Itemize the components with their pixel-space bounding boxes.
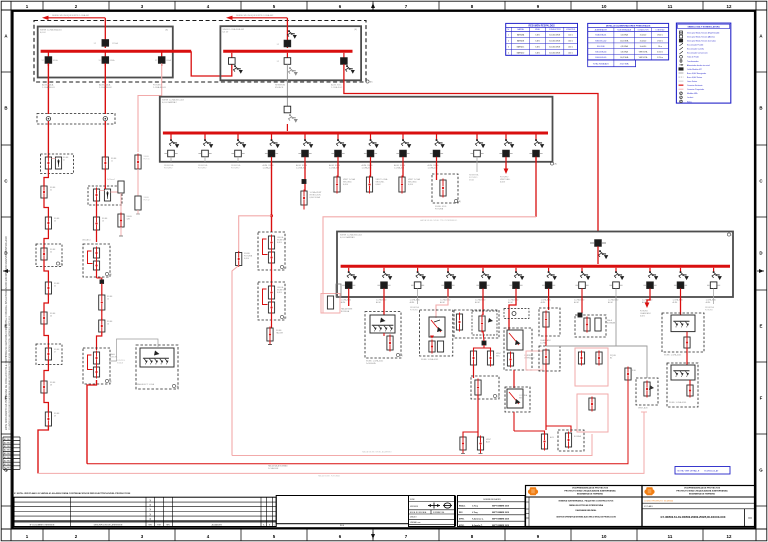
- chain feeder 516 starter box: [504, 328, 543, 370]
- wire feeder 536 drop and pale link: [323, 157, 536, 294]
- svg-text:3x1x500 MCM: 3x1x500 MCM: [549, 41, 560, 43]
- svg-text:GESTION OPERATIVA SISTEMA ELEC: GESTION OPERATIVA SISTEMA ELECTRICO NIVE…: [556, 516, 616, 519]
- load cell col2 y322: [99, 310, 113, 334]
- chain feeder 548 bottom box: [546, 364, 584, 451]
- wire col1 segment i: [44, 393, 48, 412]
- sala electrica dashed room: [136, 345, 178, 389]
- svg-text:A.Jacobs T.: A.Jacobs T.: [472, 524, 483, 527]
- svg-text:(E): (E): [370, 82, 373, 84]
- load cell col2 y159: [102, 156, 117, 171]
- svg-text:Trafo de Poder: Trafo de Poder: [687, 57, 699, 59]
- label under SG-A feeder1: [42, 84, 56, 89]
- svg-text:SGC-SGD: SGC-SGD: [597, 46, 606, 48]
- svg-text:ESTE DOCUMENTO ES PROPIEDAD DE: ESTE DOCUMENTO ES PROPIEDAD DE CODELCO C…: [5, 236, 8, 430]
- svg-text:FUTURO: FUTURO: [410, 309, 418, 311]
- svg-text:T.Jamenez L.: T.Jamenez L.: [472, 518, 484, 520]
- svg-text:06: 06: [50, 315, 52, 317]
- svg-text:VERSION: VERSION: [410, 506, 419, 508]
- svg-text:TALLER: TALLER: [276, 331, 284, 334]
- svg-text:SEC: SEC: [496, 355, 501, 357]
- RMU stacked pair box col2 lower: [83, 332, 118, 384]
- feeder breaker on bus D at x=680.5: [674, 268, 689, 297]
- feed wire SG-B to SG-D switchgear: [344, 64, 598, 231]
- svg-text:13: 13: [102, 220, 104, 222]
- svg-text:FUTURO: FUTURO: [164, 167, 173, 169]
- left margin revision strip: [3, 437, 20, 470]
- svg-text:ALIM.: ALIM.: [541, 301, 546, 304]
- feeder breaker on bus C at x=171: [164, 135, 179, 162]
- svg-text:6,6kV: 6,6kV: [376, 184, 382, 186]
- svg-text:DIBUJO: DIBUJO: [410, 517, 417, 519]
- switchgear cabinet SG-D (lower): [337, 232, 734, 298]
- svg-text:CONDUCTOR: CONDUCTOR: [638, 29, 650, 31]
- svg-text:ALIM.: ALIM.: [706, 301, 711, 304]
- svg-text:630A: 630A: [53, 59, 58, 62]
- svg-text:6,6kV: 6,6kV: [640, 315, 646, 317]
- busbar A 6.6kV: [41, 50, 192, 53]
- feeder breaker on bus C at x=205: [198, 135, 213, 162]
- svg-text:Interruptor Media Tension (Fij: Interruptor Media Tension (Fijo) Extraib…: [687, 31, 719, 34]
- source arrow DESDE SGA: [42, 14, 105, 20]
- feeder breaker on bus D at x=616: [609, 268, 624, 297]
- svg-text:ALCANCES: ALCANCES: [212, 523, 223, 526]
- unit substation box feeder 384: [365, 297, 403, 365]
- feeder label x=305: [296, 164, 308, 169]
- svg-text:UNIDAD mm: UNIDAD mm: [410, 521, 421, 524]
- svg-text:X: X: [149, 508, 151, 512]
- bottom cell chain 516: [514, 412, 555, 451]
- svg-text:1-CHA-SE-01: 1-CHA-SE-01: [42, 86, 56, 89]
- spare feeder label x=171: [164, 164, 174, 169]
- svg-text:6,6kV: 6,6kV: [500, 181, 506, 183]
- svg-text:LONGITUD: LONGITUD: [656, 29, 666, 31]
- RMU stacked pair box 2 on feeder 271: [258, 282, 287, 320]
- load cell col1 y188: [41, 185, 56, 200]
- stubs under chain 483 bottom pair: [461, 450, 483, 454]
- feeder breaker on bus C at x=338: [331, 135, 346, 162]
- svg-text:(E): (E): [284, 267, 287, 269]
- enclosure corner mark: [366, 80, 373, 84]
- source arrow DESDE SGB: [226, 14, 287, 20]
- svg-text:04: 04: [50, 251, 52, 253]
- svg-text:1-CHA-SGC: 1-CHA-SGC: [331, 86, 343, 89]
- pale col3 load cell: [135, 154, 150, 171]
- chain feeder 548 box1: [539, 297, 560, 345]
- feeder breaker on bus D at x=348.7: [342, 268, 357, 297]
- svg-text:SALA ELECT. 1-CHA: SALA ELECT. 1-CHA: [137, 383, 155, 386]
- junction square col2: [97, 269, 104, 284]
- svg-text:ENLACE: ENLACE: [275, 86, 284, 89]
- svg-text:B1: B1: [610, 357, 612, 359]
- svg-text:200 m: 200 m: [568, 47, 573, 49]
- feeder label x=338: [329, 164, 341, 169]
- title block section project 2 with drawing number: [642, 486, 756, 527]
- feeder breaker on bus C at x=271.5: [265, 135, 280, 162]
- wire col2 segment a: [104, 121, 106, 157]
- svg-text:BARRA: BARRA: [517, 28, 524, 31]
- spare feeder label x=238: [231, 164, 241, 169]
- title block section project 1: [526, 486, 643, 527]
- svg-text:(E): (E): [60, 264, 63, 266]
- svg-text:ALIM.: ALIM.: [508, 301, 513, 304]
- sub-branch cell lower: [118, 213, 133, 237]
- svg-text:(E): (E): [731, 235, 734, 237]
- label under SG-B coupler: [275, 84, 285, 89]
- svg-text:3x1x500 MCM: 3x1x500 MCM: [549, 35, 560, 37]
- chain feeder 548 box2: [539, 327, 560, 371]
- legend simbologia y nomenclatura: [676, 23, 730, 103]
- svg-text:FUTURO: FUTURO: [705, 309, 713, 311]
- svg-text:N° PLANO:: N° PLANO:: [644, 505, 654, 508]
- bus D feeder label x=582: [574, 299, 585, 304]
- svg-text:LONGITUD: LONGITUD: [566, 29, 576, 31]
- load cell col2 y219: [93, 216, 108, 232]
- svg-text:BARRA B: BARRA B: [517, 40, 525, 43]
- svg-text:FORMATO A1: FORMATO A1: [433, 511, 444, 514]
- bus A overhang tie to SG-B: [191, 51, 232, 76]
- svg-text:X: X: [149, 503, 151, 507]
- svg-text:BODEGA: BODEGA: [341, 310, 350, 313]
- svg-text:CODIGO PROYECTO: GY-4W500: CODIGO PROYECTO: GY-4W500: [644, 500, 673, 502]
- svg-text:(E): (E): [458, 201, 461, 203]
- busbar D 6.6kV: [341, 265, 730, 268]
- sub-branch cell upper: [118, 181, 124, 214]
- svg-text:(E): (E): [109, 274, 112, 276]
- incomer disconnect switch SG-B: [287, 30, 296, 38]
- motor starter dashed box: [636, 378, 658, 410]
- svg-text:(E): (E): [165, 30, 168, 32]
- svg-text:6,6kV: 6,6kV: [277, 292, 283, 294]
- svg-text:Seccionador Fusible: Seccionador Fusible: [687, 45, 703, 47]
- chain feeder 516 upper: [504, 297, 529, 330]
- pink future group left of SG-D: [321, 284, 341, 313]
- svg-text:(E): (E): [400, 355, 403, 357]
- junction below 483: [474, 331, 491, 351]
- svg-text:NOMBRE FECHA: NOMBRE FECHA REV: [483, 498, 501, 501]
- wire col2 segment c: [96, 201, 98, 217]
- svg-text:16,47 MVA: 16,47 MVA: [620, 56, 629, 59]
- feeder breaker on bus C at x=536: [529, 135, 544, 162]
- bus coupler breaker 52-B3 (open): [277, 53, 291, 65]
- stub feeder 348: [341, 297, 353, 313]
- svg-text:6,6kV 400A: 6,6kV 400A: [310, 196, 321, 199]
- title block left tables: [14, 492, 525, 527]
- svg-text:SEPT EMBRE 2019: SEPT EMBRE 2019: [492, 505, 509, 507]
- load cell col1 y383: [41, 380, 56, 395]
- svg-text:630A: 630A: [469, 178, 474, 181]
- svg-text:NIVEL: NIVEL: [535, 29, 540, 31]
- feeder breaker on bus D at x=650: [643, 268, 658, 297]
- svg-text:3x1x500: 3x1x500: [640, 35, 646, 37]
- cabinet C corner mark: [550, 162, 557, 166]
- svg-text:08: 08: [50, 384, 52, 386]
- label under SG-B feeder: [331, 84, 343, 89]
- svg-text:ALIM.: ALIM.: [574, 301, 579, 304]
- svg-text:SEPT EMBRE 2019: SEPT EMBRE 2019: [492, 525, 509, 527]
- bus D feeder label x=650: [642, 299, 653, 304]
- svg-text:1: 1: [508, 35, 509, 37]
- svg-text:2° NOTA: VER PLANO GY-4W500-61: 2° NOTA: VER PLANO GY-4W500-61-AV-45002 …: [14, 492, 131, 495]
- spare feeder gray stub: [469, 162, 479, 182]
- feeder label x=370.5: [362, 164, 374, 169]
- svg-text:3x1x500: 3x1x500: [640, 40, 646, 42]
- svg-text:02: 02: [50, 189, 52, 191]
- svg-text:11: 11: [668, 4, 673, 9]
- svg-text:ALIM.: ALIM.: [440, 301, 445, 304]
- svg-text:INGENIERIA DE TERRENO: INGENIERIA DE TERRENO: [577, 493, 604, 496]
- svg-text:ALIM.: ALIM.: [410, 301, 415, 304]
- svg-text:1-CHA-SGE: 1-CHA-SGE: [268, 467, 279, 470]
- svg-text:F: F: [760, 396, 763, 401]
- branch pale to sub-column: [111, 187, 121, 192]
- incomer breaker 52-A1: [94, 40, 119, 47]
- svg-text:Transformador: Transformador: [687, 61, 699, 63]
- svg-text:Conexion Existente: Conexion Existente: [687, 84, 702, 87]
- svg-text:10: 10: [602, 534, 607, 539]
- svg-text:HACIA SS.EE. FUTURAS: HACIA SS.EE. FUTURAS: [318, 474, 340, 477]
- svg-text:FUTURA: FUTURA: [435, 207, 444, 210]
- svg-text:REV.: REV.: [459, 512, 463, 514]
- svg-text:VER NOTA: VER NOTA: [639, 51, 648, 54]
- wire col1 segment e: [44, 260, 48, 282]
- collector wire pink upper: [232, 434, 592, 456]
- svg-text:1-CHA-SE-02: 1-CHA-SE-02: [99, 86, 113, 89]
- distribution complex feeder 483: [454, 297, 499, 338]
- contactor cell feeder 305: [301, 190, 322, 210]
- wire col1 segment h: [44, 360, 48, 381]
- future arrow feeder 650: [640, 297, 651, 318]
- future feeder red arrow: [500, 162, 511, 184]
- svg-text:VER NOTA: VER NOTA: [639, 56, 648, 59]
- feeder breaker on bus C at x=403: [396, 135, 411, 162]
- incomer breaker 52-B1: [277, 40, 291, 47]
- tie breaker 52-B2 (open): [229, 53, 243, 74]
- feeder breaker on bus C at x=506: [499, 135, 514, 162]
- svg-text:ALIM.: ALIM.: [341, 301, 346, 304]
- svg-text:SGE-SGF-005: SGE-SGF-005: [595, 57, 606, 59]
- svg-text:INGENIERIA DE TERRENO: INGENIERIA DE TERRENO: [689, 493, 716, 496]
- blue reference box: [675, 467, 730, 475]
- wire col1 segment c: [44, 198, 48, 217]
- svg-text:Seccionador Cuchilla: Seccionador Cuchilla: [687, 49, 704, 51]
- wire SG-A feeder2 drop: [104, 63, 106, 114]
- pale wire down to collector: [232, 266, 239, 456]
- svg-text:BOMBAS: BOMBAS: [607, 321, 616, 324]
- svg-text:ESCA. NO ESCALA: ESCA. NO ESCALA: [410, 511, 427, 514]
- svg-text:15: 15: [107, 298, 109, 300]
- unit substation box feeder 448: [420, 297, 453, 361]
- feeder breaker on bus D at x=417.6: [411, 268, 426, 297]
- svg-text:6,6 kV BARRA D: 6,6 kV BARRA D: [340, 236, 356, 239]
- svg-text:Linea Futura: Linea Futura: [687, 80, 697, 83]
- svg-text:Interruptor Media Tension (Abi: Interruptor Media Tension (Abierto): [687, 35, 715, 38]
- svg-text:BARRA D: BARRA D: [517, 52, 525, 55]
- svg-text:11: 11: [111, 160, 113, 162]
- tie wire gray to distribution board: [287, 64, 297, 107]
- branch cells below 483: [470, 350, 501, 367]
- switch-fuse pair dashed box col1: [41, 154, 74, 174]
- svg-text:PROYECTO MINA CHUQUICAMATA SUB: PROYECTO MINA CHUQUICAMATA SUBTERRANEA: [564, 490, 616, 493]
- feeder breaker on bus C at x=477: [470, 135, 485, 162]
- svg-text:01: 01: [63, 159, 65, 161]
- svg-text:SIMBOLOGIA Y NOMENCLATURA: SIMBOLOGIA Y NOMENCLATURA: [688, 26, 721, 29]
- wire between RMU boxes: [271, 263, 273, 286]
- dashed unit box feeder 436: [432, 162, 461, 211]
- svg-text:MINERIA SUBTERRANEA - PAQUETES: MINERIA SUBTERRANEA - PAQUETES CONSTRUCT…: [559, 500, 614, 503]
- label under SG-A feeder2: [99, 84, 113, 89]
- feeder breaker on bus D at x=582: [575, 268, 590, 297]
- svg-text:ALIM.: ALIM.: [376, 301, 381, 304]
- svg-text:FUT 01: FUT 01: [144, 158, 150, 160]
- feeder breaker on bus D at x=713.6: [707, 268, 722, 297]
- svg-text:12: 12: [727, 534, 732, 539]
- label under SG-A feeder3: [153, 85, 167, 89]
- svg-text:FUTURO: FUTURO: [231, 167, 240, 169]
- gray control link to sala: [109, 339, 158, 364]
- gray reserve path feeder 616: [546, 297, 647, 378]
- svg-text:Lockout: Lockout: [687, 96, 694, 99]
- svg-text:HACIA SS.EE. NIVEL ACARREO: HACIA SS.EE. NIVEL ACARREO: [362, 451, 392, 454]
- svg-text:BARRA C: BARRA C: [517, 46, 525, 49]
- svg-text:6,6 kV BARRA C: 6,6 kV BARRA C: [162, 101, 178, 104]
- svg-text:APRO.: APRO.: [459, 524, 465, 527]
- feeder breaker 52-F3 on bus A: [155, 53, 172, 67]
- busbar C 6.6kV: [163, 132, 548, 135]
- svg-text:SGD-SGE-004: SGD-SGE-004: [595, 52, 606, 54]
- feeder label x=436.5: [428, 164, 440, 169]
- svg-text:SEC: SEC: [519, 397, 524, 399]
- svg-text:3x1x500 MCM: 3x1x500 MCM: [549, 53, 560, 55]
- wire col1 segment b: [44, 169, 48, 186]
- wire col1 segment g: [44, 324, 48, 347]
- svg-text:10: 10: [602, 4, 607, 9]
- load cell feeder 403: [399, 162, 421, 194]
- wire col2 segment b: [105, 169, 115, 189]
- collector wire pale lower: [38, 412, 647, 477]
- feeder breaker 52-B4: [341, 53, 355, 74]
- svg-text:Reles: Reles: [687, 101, 692, 103]
- svg-text:CONDUCTOR: CONDUCTOR: [549, 29, 561, 31]
- svg-text:B: B: [269, 524, 270, 526]
- svg-text:16: 16: [107, 323, 109, 325]
- svg-text:03: 03: [54, 220, 56, 222]
- svg-text:FUTURO: FUTURO: [198, 167, 207, 169]
- svg-text:NOTA: VER DETALLE: NOTA: VER DETALLE: [678, 470, 700, 473]
- svg-text:ALIM.: ALIM.: [608, 301, 613, 304]
- svg-text:N°: N°: [507, 29, 509, 31]
- svg-text:DIAGRAMA UNILINEAL: DIAGRAMA UNILINEAL: [576, 509, 598, 512]
- feeder 582 cells: [575, 315, 616, 337]
- svg-text:L.Troy: L.Troy: [472, 512, 479, 514]
- feeder breaker on bus C at x=436.5: [430, 135, 445, 162]
- svg-text:XX: XX: [748, 516, 752, 520]
- svg-text:SCADA: SCADA: [117, 361, 124, 364]
- left margin rotated property note: [5, 236, 11, 430]
- svg-text:TOTAL INSTALADO: TOTAL INSTALADO: [593, 62, 610, 65]
- svg-text:VICEPRESIDENCIA DE PROYECTOS: VICEPRESIDENCIA DE PROYECTOS: [572, 487, 609, 490]
- svg-text:3: 3: [508, 47, 509, 49]
- svg-text:B: B: [759, 106, 762, 111]
- RMU stacked pair box 1 on feeder 271: [258, 232, 287, 270]
- svg-text:Conexion Proyectada: Conexion Proyectada: [687, 88, 704, 91]
- svg-text:B: B: [4, 106, 7, 111]
- table detalle alimentadores principales: [588, 23, 669, 66]
- bus D feeder label x=483: [475, 299, 486, 304]
- bus D feeder label x=417.6: [410, 299, 421, 304]
- unit substation feeder 680 box2: [667, 348, 698, 407]
- table resumen respaldos: [506, 23, 578, 55]
- load cell feeder 338: [334, 162, 356, 194]
- svg-text:HACIA SS.EE. NIVEL TTE. INTERM: HACIA SS.EE. NIVEL TTE. INTERMEDIO: [420, 219, 458, 222]
- wire SG-A feeder1 drop: [47, 63, 49, 114]
- svg-text:SGA-SGB-001: SGA-SGB-001: [595, 34, 606, 37]
- svg-text:3,16 MVA: 3,16 MVA: [620, 34, 628, 37]
- svg-text:E: E: [760, 324, 763, 329]
- switchgear cabinet SG-C (middle): [160, 97, 553, 162]
- svg-text:1-CHA-SE-03: 1-CHA-SE-03: [153, 86, 167, 89]
- svg-text:3x1x350: 3x1x350: [640, 46, 646, 48]
- svg-text:BARRA A: BARRA A: [517, 34, 525, 37]
- svg-text:G: G: [759, 468, 763, 473]
- middle incomer breaker (open): [284, 106, 298, 131]
- load cell col1 y349 dashed: [36, 344, 62, 365]
- feeder breaker on bus D at x=516: [509, 268, 524, 297]
- svg-text:Alimentador desde otro nivel: Alimentador desde otro nivel: [687, 64, 710, 67]
- svg-text:Barra 6,6kV Energizada: Barra 6,6kV Energizada: [687, 73, 706, 75]
- collector wire red middle: [87, 380, 628, 470]
- feeder breaker on bus D at x=548.6: [542, 268, 557, 297]
- svg-text:1250A: 1250A: [112, 42, 118, 45]
- svg-text:6,6kV: 6,6kV: [244, 258, 250, 260]
- load cell col1 y414: [45, 411, 60, 428]
- svg-text:4,35 MVA: 4,35 MVA: [620, 45, 628, 48]
- end cell feeder 271: [267, 313, 284, 345]
- svg-text:3.700 m: 3.700 m: [657, 52, 664, 54]
- feeder breaker on bus C at x=238: [231, 135, 246, 162]
- svg-text:BOMBA: BOMBA: [574, 435, 582, 438]
- svg-text:SEPT EMBRE 2019: SEPT EMBRE 2019: [492, 518, 509, 520]
- svg-text:X: X: [149, 498, 151, 502]
- wire feeder 305 drop: [304, 162, 306, 191]
- svg-text:SS.EE. 1-CHA-4105: SS.EE. 1-CHA-4105: [664, 354, 681, 357]
- incomer riser to SG-A: [104, 18, 106, 48]
- load cell col2 y295: [99, 284, 113, 312]
- incomer riser to SG-B: [286, 18, 288, 48]
- svg-text:6,6kV: 6,6kV: [277, 242, 283, 244]
- feeder breaker on bus D at x=448: [441, 268, 456, 297]
- svg-text:6,6kV: 6,6kV: [343, 184, 349, 186]
- bus D feeder label x=713.6: [706, 299, 717, 304]
- bus D feeder label x=448: [440, 299, 451, 304]
- load cell col1 y284: [45, 281, 60, 296]
- CT metering circle column2: [103, 117, 107, 121]
- svg-text:6,6 kV: 6,6 kV: [223, 32, 229, 34]
- wire col1 segment d: [44, 229, 48, 248]
- svg-text:12: 12: [727, 4, 732, 9]
- busbar B 6.6kV: [223, 50, 352, 53]
- bus D feeder label x=384: [376, 299, 387, 304]
- svg-text:1900 m: 1900 m: [657, 35, 663, 37]
- svg-text:120 m: 120 m: [568, 35, 573, 37]
- switchgear cabinet SG-B (right): [220, 26, 361, 80]
- chain feeder 516 lower box: [505, 370, 530, 412]
- load cell col1 y250 dashed: [36, 244, 63, 267]
- feeder label x=271.5: [263, 164, 275, 169]
- svg-text:4: 4: [508, 53, 509, 55]
- bus D feeder label x=348.7: [341, 299, 352, 304]
- svg-text:KCM INSTALADA: KCM INSTALADA: [617, 28, 631, 31]
- wire col1 segment a: [47, 121, 49, 157]
